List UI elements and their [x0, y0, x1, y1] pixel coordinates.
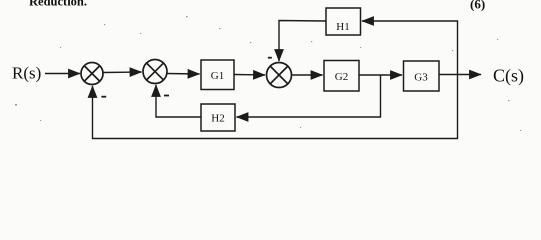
block G1	[201, 60, 234, 90]
wire takeoff after G3 up to H1 input	[362, 21, 458, 75]
summing junction S3	[267, 63, 292, 88]
wire G3 to output C(s)	[439, 74, 481, 76]
wire takeoff between G2 and G3 down to H2 input	[237, 75, 381, 117]
svg-text:G1: G1	[211, 70, 224, 82]
svg-text:C(s): C(s)	[493, 66, 524, 87]
wire H1 output down to S3	[279, 21, 326, 62]
block H2	[201, 104, 235, 131]
minus sign at S1	[101, 96, 106, 98]
summing junction S2	[143, 60, 167, 84]
block G3	[404, 61, 440, 91]
svg-text:H2: H2	[211, 113, 224, 125]
summing junction S1	[81, 63, 103, 85]
wire S2 to block G1	[167, 73, 200, 76]
outer feedback wire from output takeoff to S1	[93, 75, 458, 139]
wire G1 to summer S3	[234, 74, 265, 77]
wire G2 to block G3 with takeoff node	[359, 74, 402, 76]
block H1	[326, 8, 361, 35]
wire R(s) to summer S1	[45, 73, 80, 75]
wire H2 output up to S2	[156, 85, 201, 117]
scan noise speckles (decorative)	[15, 16, 521, 131]
svg-text:(6): (6)	[470, 0, 485, 12]
svg-text:H1: H1	[336, 21, 349, 33]
wire S3 to block G2	[292, 74, 323, 76]
svg-text:Reduction.: Reduction.	[29, 0, 87, 9]
svg-text:G2: G2	[335, 71, 348, 83]
minus sign at S2	[164, 95, 169, 97]
svg-text:R(s): R(s)	[12, 64, 41, 83]
svg-text:G3: G3	[414, 72, 428, 84]
minus sign at S3	[268, 57, 272, 59]
wire S1 to summer S2	[103, 71, 142, 74]
block G2	[324, 61, 359, 92]
